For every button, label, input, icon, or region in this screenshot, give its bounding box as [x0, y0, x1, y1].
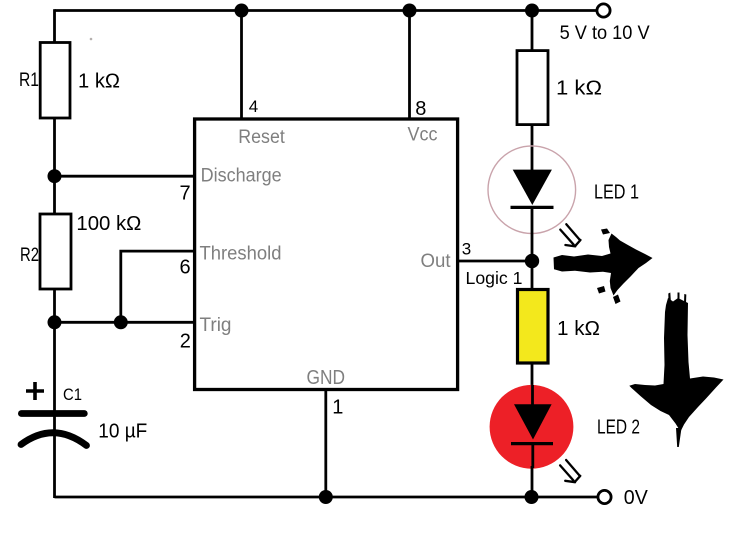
- LED 1: [488, 146, 581, 247]
- wire LED1 to out node: [531, 207, 534, 261]
- svg-text:C1: C1: [63, 385, 82, 404]
- svg-text:LED 2: LED 2: [597, 417, 640, 439]
- wire out pin 3: [458, 260, 532, 263]
- svg-text:Threshold: Threshold: [200, 244, 282, 265]
- junction node reset on supply rail: [235, 4, 249, 18]
- resistor R3: [517, 51, 548, 125]
- svg-text:6: 6: [180, 257, 191, 279]
- svg-text:2: 2: [180, 331, 191, 353]
- wire gnd pin 1: [324, 389, 327, 497]
- annotation brush arrow right: [554, 229, 653, 305]
- capacitor C1: [21, 382, 87, 446]
- svg-text:0V: 0V: [624, 487, 649, 509]
- svg-text:7: 7: [180, 183, 191, 205]
- svg-text:3: 3: [462, 240, 471, 259]
- junction node LED2 on ground rail: [525, 490, 539, 504]
- junction node R1/R2/discharge: [48, 169, 62, 183]
- wire supply to R1: [53, 9, 56, 44]
- terminal 0V: [598, 490, 611, 503]
- wire threshold pin 6: [121, 251, 195, 322]
- op-amp U1 555 timer body: [195, 119, 458, 390]
- wire R4 to LED2: [531, 363, 534, 405]
- svg-text:Vcc: Vcc: [408, 125, 438, 146]
- svg-text:R1: R1: [19, 70, 39, 91]
- junction node trig/left rail: [48, 315, 62, 329]
- speck: [90, 38, 93, 41]
- terminal 5V supply: [597, 4, 610, 17]
- svg-text:Out: Out: [421, 251, 452, 272]
- resistor R1: [40, 43, 70, 119]
- junction node gnd on ground rail: [319, 490, 333, 504]
- svg-text:100 kΩ: 100 kΩ: [76, 213, 141, 235]
- svg-text:Logic 1: Logic 1: [466, 268, 523, 288]
- svg-text:GND: GND: [307, 367, 346, 389]
- LED 2: [490, 385, 581, 482]
- wire out node to R4: [531, 261, 534, 290]
- resistor R2: [40, 214, 71, 289]
- wire R1 to R2: [53, 118, 56, 215]
- svg-text:1 kΩ: 1 kΩ: [78, 71, 120, 93]
- svg-text:1 kΩ: 1 kΩ: [557, 317, 600, 340]
- annotation brush arrow down: [629, 293, 723, 448]
- wire trigger pin 2: [55, 321, 195, 324]
- svg-text:LED 1: LED 1: [594, 182, 639, 204]
- svg-text:8: 8: [415, 98, 426, 120]
- wire R2 to C1 to ground rail: [53, 288, 56, 498]
- wire supply to R3: [531, 11, 534, 53]
- junction node R3 branch on supply rail: [525, 4, 539, 18]
- resistor R4 yellow: [518, 290, 549, 364]
- svg-text:5 V to 10 V: 5 V to 10 V: [560, 23, 650, 44]
- svg-text:4: 4: [249, 97, 258, 116]
- junction node trig/threshold: [114, 315, 128, 329]
- svg-text:1: 1: [332, 397, 343, 419]
- junction node vcc on supply rail: [403, 4, 417, 18]
- wire top supply rail: [55, 9, 598, 12]
- wire bottom ground rail: [55, 496, 599, 499]
- svg-text:Trig: Trig: [200, 315, 232, 336]
- junction node out: [525, 254, 539, 268]
- svg-text:1 kΩ: 1 kΩ: [556, 78, 602, 100]
- svg-text:10 µF: 10 µF: [98, 421, 147, 443]
- svg-text:R2: R2: [20, 245, 39, 266]
- wire LED2 to ground rail: [531, 466, 534, 497]
- wire R3 to LED1: [531, 125, 534, 171]
- wire discharge pin 7: [55, 175, 195, 178]
- wire vcc pin 8: [408, 11, 411, 120]
- svg-text:Discharge: Discharge: [201, 166, 282, 187]
- wire reset pin 4: [240, 11, 243, 120]
- svg-text:Reset: Reset: [238, 126, 285, 148]
